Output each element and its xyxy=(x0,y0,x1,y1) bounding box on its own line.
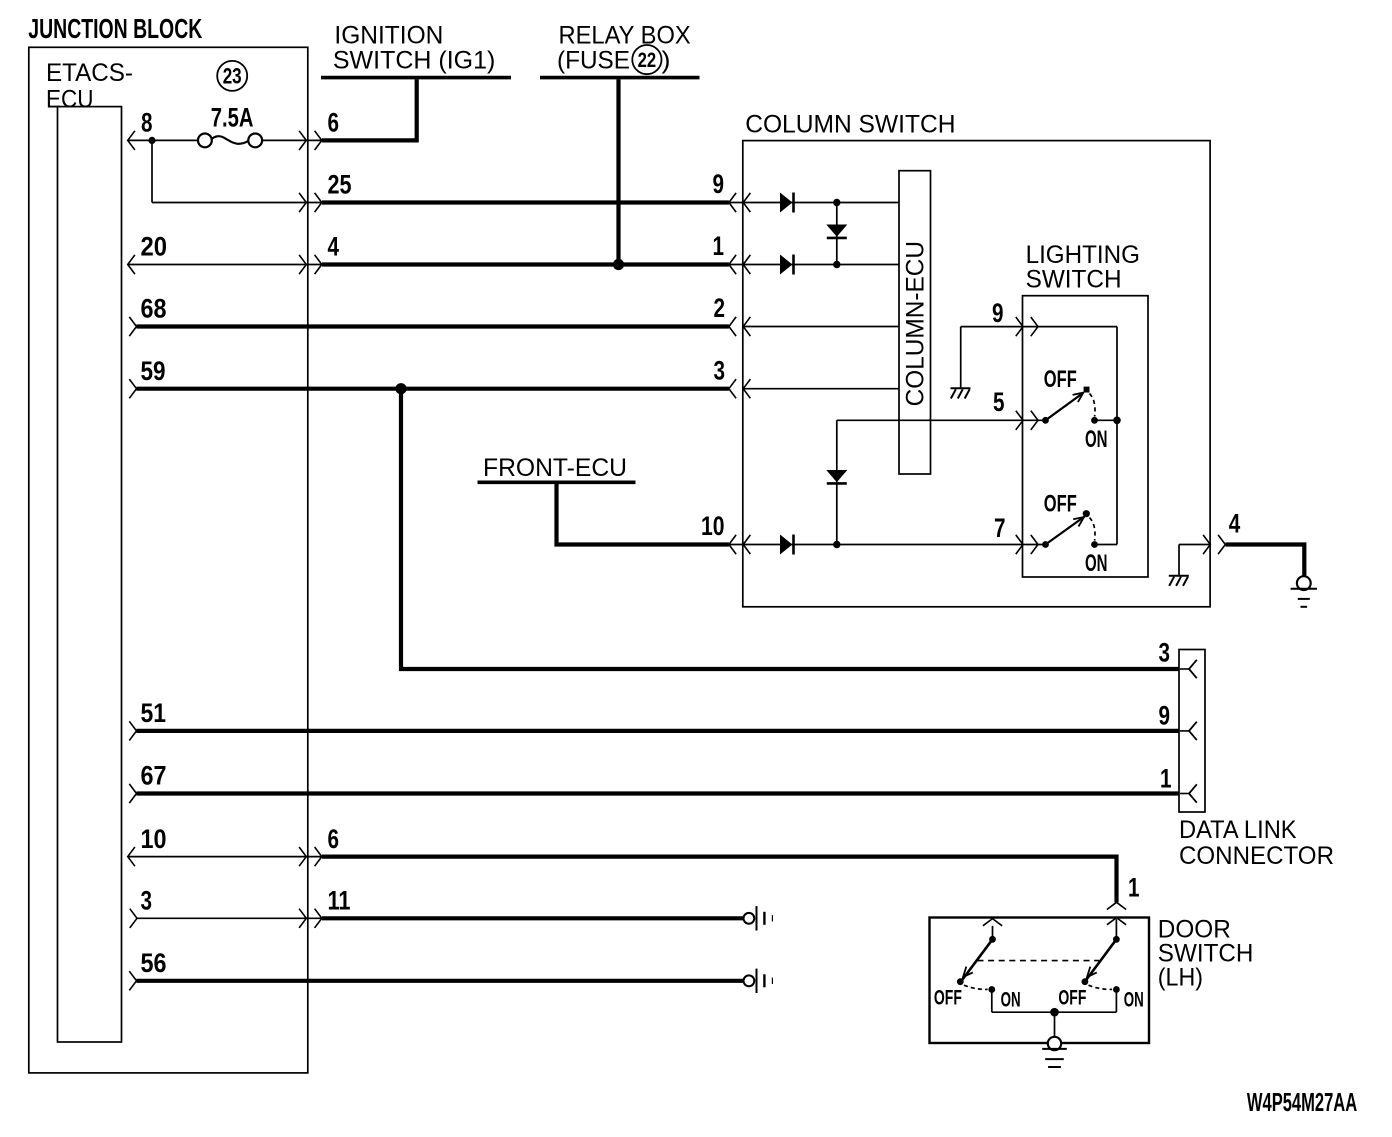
wire 25 to column switch pin 9 (thick) xyxy=(322,200,729,204)
ground stub G2 wire xyxy=(1178,545,1180,576)
door connector arrows pin 1 xyxy=(1107,902,1126,925)
wire 56 (thick) xyxy=(137,979,744,983)
svg-text:COLUMN SWITCH: COLUMN SWITCH xyxy=(745,110,955,138)
door coupling dashed link xyxy=(978,960,1100,962)
svg-text:9: 9 xyxy=(713,169,725,199)
wire 4 to ground (thick) xyxy=(1226,545,1305,577)
relay feed wire (thick) xyxy=(616,79,620,264)
data link terminal pin 1 xyxy=(1180,784,1197,802)
lighting border connector pin 5 xyxy=(1016,411,1038,430)
svg-text:SWITCH (IG1): SWITCH (IG1) xyxy=(333,46,495,74)
wire 59 to column pin 3 (thick) xyxy=(137,387,729,391)
svg-text:4: 4 xyxy=(328,232,340,262)
svg-text:3: 3 xyxy=(714,355,726,385)
wire D5 vertical branch xyxy=(836,420,838,544)
svg-text:OFF: OFF xyxy=(1044,366,1077,393)
svg-text:ON: ON xyxy=(1124,989,1144,1012)
svg-text:68: 68 xyxy=(141,294,167,324)
svg-text:OFF: OFF xyxy=(934,986,962,1009)
ground stub G1 wire xyxy=(960,327,962,389)
arrow pin 67 out of ETACS xyxy=(129,784,136,803)
ETACS-ECU label xyxy=(46,59,133,113)
arrow pin 59 out of ETACS xyxy=(129,379,136,398)
svg-text:ON: ON xyxy=(1085,426,1108,453)
junction border connector wire 10/6 xyxy=(299,847,322,866)
wire lighting pin 9 xyxy=(961,326,1117,328)
ETACS-ECU box xyxy=(58,107,122,1042)
door left terminal arrow xyxy=(983,919,1002,926)
wire pin 20 xyxy=(128,264,322,266)
svg-text:2: 2 xyxy=(714,293,726,323)
column switch box xyxy=(743,141,1210,607)
svg-text:9: 9 xyxy=(992,298,1004,328)
svg-text:7.5A: 7.5A xyxy=(211,102,254,132)
svg-text:SWITCH: SWITCH xyxy=(1026,266,1122,294)
COLUMN-ECU box xyxy=(899,171,931,474)
svg-text:DATA LINK: DATA LINK xyxy=(1179,816,1297,844)
wire 56 termination symbol xyxy=(744,969,773,993)
svg-text:6: 6 xyxy=(328,824,340,854)
wire 51 to data link pin 9 (thick) xyxy=(137,729,1180,733)
svg-text:1: 1 xyxy=(1128,873,1140,903)
earth ground G3 xyxy=(1297,576,1311,590)
column border connector pin 9 xyxy=(729,193,751,212)
svg-text:ON: ON xyxy=(1085,550,1108,577)
svg-text:FRONT-ECU: FRONT-ECU xyxy=(483,454,627,482)
wire 5 from branch to lighting switch xyxy=(837,419,1043,421)
arrow pin3 out of ETACS xyxy=(130,909,137,928)
door switch SWL xyxy=(957,936,996,1012)
svg-text:7: 7 xyxy=(994,513,1006,543)
wire 4 to column switch pin 1 (thick) xyxy=(322,262,729,266)
arrow pin 51 out of ETACS xyxy=(129,721,136,740)
door right stub wire xyxy=(1115,919,1117,937)
FRONT-ECU feed wire (thick) xyxy=(557,484,729,545)
DOOR SWITCH (LH) label xyxy=(1158,915,1254,991)
door ground stub xyxy=(1054,1012,1056,1037)
svg-text:COLUMN-ECU: COLUMN-ECU xyxy=(902,241,930,406)
svg-text:51: 51 xyxy=(141,698,167,728)
svg-text:59: 59 xyxy=(141,356,166,386)
svg-text:OFF: OFF xyxy=(1044,490,1077,517)
node relay-wire4 junction xyxy=(613,259,624,270)
svg-text:8: 8 xyxy=(141,108,153,138)
junction border connector wire 8/6 xyxy=(299,131,322,150)
wire 67 to data link pin 1 (thick) xyxy=(137,791,1180,795)
node D1-D3 top xyxy=(833,199,840,206)
svg-text:ON: ON xyxy=(1001,989,1021,1012)
LIGHTING SWITCH label xyxy=(1026,241,1140,294)
svg-text:(FUSE: (FUSE xyxy=(557,46,630,74)
chassis ground G1 xyxy=(951,387,971,389)
svg-text:ETACS-: ETACS- xyxy=(46,59,133,87)
door switch box xyxy=(930,918,1150,1044)
svg-text:1: 1 xyxy=(1160,764,1172,794)
node fuse-25 branch xyxy=(148,137,155,144)
wire col pin2 internal xyxy=(743,326,899,328)
svg-text:ECU: ECU xyxy=(46,85,94,113)
wire D3 vertical xyxy=(836,203,838,265)
chassis ground G2 xyxy=(1169,575,1189,577)
svg-text:(LH): (LH) xyxy=(1158,964,1203,992)
svg-text:1: 1 xyxy=(713,231,725,261)
junction border connector wire 20/4 xyxy=(299,255,322,274)
svg-text:9: 9 xyxy=(1159,700,1171,730)
svg-text:23: 23 xyxy=(223,64,242,89)
wire 11 (thick) xyxy=(322,917,744,919)
DATA LINK CONNECTOR label xyxy=(1179,816,1334,870)
svg-text:20: 20 xyxy=(141,232,168,262)
fuse 23 circled number xyxy=(217,61,247,91)
svg-text:): ) xyxy=(662,46,671,74)
arrow pin10 into ETACS xyxy=(128,847,135,866)
wire col pin1 internal xyxy=(729,264,899,266)
svg-text:CONNECTOR: CONNECTOR xyxy=(1179,842,1334,870)
column border connector pin 10 xyxy=(729,535,751,554)
diode D3 vertical xyxy=(826,225,847,237)
svg-text:22: 22 xyxy=(638,49,657,72)
wire pin 3 xyxy=(137,917,322,919)
svg-text:56: 56 xyxy=(141,948,167,978)
svg-text:10: 10 xyxy=(141,824,167,854)
column border connector pin 4 xyxy=(1203,535,1225,554)
door left stub wire xyxy=(992,926,994,937)
wire lighting common vertical xyxy=(1116,327,1118,545)
column border connector pin 3 xyxy=(729,379,751,398)
wire col pin9 internal xyxy=(729,202,899,204)
wire 11 termination symbol xyxy=(744,906,773,930)
junction border connector wire 3/11 xyxy=(299,909,322,928)
node door ground junction xyxy=(1050,1008,1059,1017)
column border connector pin 2 xyxy=(729,317,751,336)
FRONT-ECU label xyxy=(478,454,636,482)
diode D2 on wire 1 xyxy=(780,255,792,275)
door switch SWR xyxy=(1082,936,1120,1012)
junction block box xyxy=(29,47,308,1073)
door ground bus wire xyxy=(992,1011,1117,1013)
svg-text:11: 11 xyxy=(328,886,351,916)
wire 68 to column pin 2 (thick) xyxy=(137,324,729,328)
arrow pin8 into ETACS xyxy=(128,131,135,150)
node D2-D3 bottom xyxy=(833,261,840,268)
wire col pin3 internal xyxy=(743,388,899,390)
data link terminal pin 9 xyxy=(1180,722,1197,740)
diode D4 on wire 10 xyxy=(780,535,792,555)
svg-text:3: 3 xyxy=(141,886,153,916)
ignition feed wire (thick) xyxy=(322,79,417,140)
data link terminal pin 3 xyxy=(1180,660,1197,678)
lighting switch SW1 (pin 5) xyxy=(1042,387,1121,425)
lighting border connector pin 7 xyxy=(1016,535,1038,554)
svg-text:10: 10 xyxy=(701,511,725,541)
svg-text:6: 6 xyxy=(328,108,340,138)
wire branch to pin 25 xyxy=(152,140,322,202)
lighting switch SW2 (pin 7) xyxy=(1042,510,1117,548)
wire 6 to door switch (thick) xyxy=(322,857,1117,903)
column border connector pin 1 xyxy=(729,255,751,274)
node D4 branch xyxy=(833,541,840,548)
svg-text:25: 25 xyxy=(328,170,352,200)
data link connector box xyxy=(1179,650,1205,813)
arrow pin 68 out of ETACS xyxy=(129,317,136,336)
svg-text:JUNCTION BLOCK: JUNCTION BLOCK xyxy=(28,13,202,44)
wire pin 10 xyxy=(128,856,322,858)
wire col pin10 internal xyxy=(729,544,1043,546)
arrow pin 56 out of ETACS xyxy=(129,971,136,990)
svg-text:W4P54M27AA: W4P54M27AA xyxy=(1247,1087,1357,1117)
lighting border connector pin 9 xyxy=(1016,317,1038,336)
svg-text:3: 3 xyxy=(1159,637,1171,667)
arrow pin20 into ETACS xyxy=(128,255,135,274)
IGNITION SWITCH (IG1) label xyxy=(321,22,511,78)
junction border connector wire 25 xyxy=(299,193,322,212)
RELAY BOX (FUSE 22) label xyxy=(540,22,700,78)
diode D5 vertical xyxy=(826,470,847,482)
fuse F23 symbol xyxy=(198,134,262,148)
diode D1 on wire 9 xyxy=(780,193,792,213)
svg-text:4: 4 xyxy=(1229,509,1241,539)
svg-text:5: 5 xyxy=(993,387,1005,417)
svg-text:OFF: OFF xyxy=(1058,986,1086,1009)
svg-text:67: 67 xyxy=(141,761,167,791)
wire 59 branch to data link pin 3 (thick) xyxy=(401,389,1179,669)
wire pin 4 internal xyxy=(1179,544,1210,546)
lighting switch box xyxy=(1023,296,1149,577)
node 59 branch xyxy=(395,383,406,394)
earth ground G4 xyxy=(1048,1037,1061,1050)
wire pin8 to fuse xyxy=(128,139,322,141)
